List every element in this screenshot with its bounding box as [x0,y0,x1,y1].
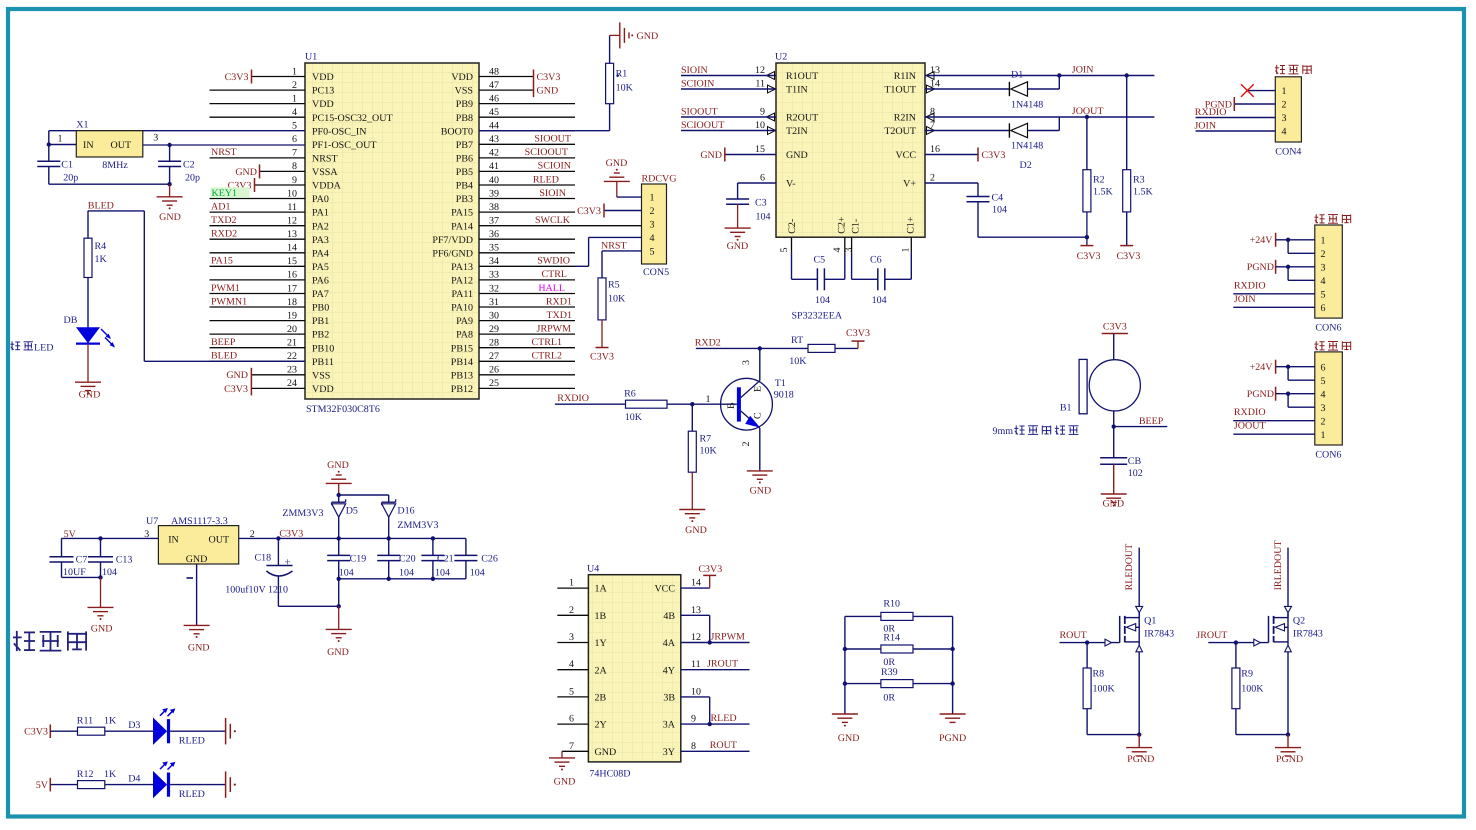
svg-text:GND: GND [235,167,257,178]
svg-text:1: 1 [569,578,574,589]
svg-text:43: 43 [489,134,499,145]
svg-text:2: 2 [1321,249,1326,260]
svg-text:PB15: PB15 [451,343,473,354]
svg-text:45: 45 [489,107,499,118]
svg-text:VDD: VDD [312,384,334,395]
svg-text:JROUT: JROUT [707,659,738,670]
svg-text:PA2: PA2 [312,221,329,232]
svg-text:19: 19 [287,310,297,321]
svg-text:GND: GND [727,241,749,252]
svg-text:4: 4 [650,233,655,244]
svg-text:1: 1 [706,394,711,405]
svg-text:GND: GND [188,642,210,653]
svg-text:4A: 4A [663,638,676,649]
svg-text:C3V3: C3V3 [577,206,601,217]
svg-text:1A: 1A [595,584,608,595]
svg-text:PA11: PA11 [452,289,474,300]
svg-text:35: 35 [489,243,499,254]
svg-text:40: 40 [489,175,499,186]
svg-text:HALL: HALL [538,283,565,294]
svg-text:T1: T1 [775,378,786,389]
svg-text:PWMN1: PWMN1 [211,296,247,307]
svg-text:SCIOOUT: SCIOOUT [525,147,568,158]
svg-text:TXD1: TXD1 [546,310,572,321]
svg-text:BEEP: BEEP [211,337,236,348]
svg-text:1K: 1K [104,769,117,780]
svg-text:104: 104 [339,567,354,578]
svg-text:1: 1 [1321,235,1326,246]
svg-text:PF6/GND: PF6/GND [432,248,473,259]
svg-text:41: 41 [489,161,499,172]
svg-text:PB7: PB7 [456,140,473,151]
svg-text:5: 5 [1321,289,1326,300]
svg-text:C1-: C1- [851,219,862,234]
svg-text:10K: 10K [700,446,718,457]
svg-text:RDCVG: RDCVG [642,174,677,185]
svg-text:PF1-OSC_OUT: PF1-OSC_OUT [312,140,376,151]
svg-text:PB13: PB13 [451,370,473,381]
svg-text:C2+: C2+ [837,216,848,234]
svg-text:ROUT: ROUT [710,740,737,751]
svg-text:R11: R11 [77,716,93,727]
svg-text:GND: GND [159,212,181,223]
svg-text:PB5: PB5 [456,167,473,178]
svg-text:4: 4 [1321,389,1326,400]
svg-text:NRST: NRST [312,154,338,165]
svg-text:GND: GND [700,150,722,161]
svg-text:10K: 10K [789,356,807,367]
svg-text:100K: 100K [1093,683,1116,694]
svg-text:C3V3: C3V3 [1103,321,1127,332]
svg-text:4: 4 [832,248,843,253]
svg-text:R5: R5 [608,280,620,291]
svg-text:13: 13 [691,605,701,616]
svg-text:7: 7 [569,741,574,752]
svg-text:C3V3: C3V3 [224,384,248,395]
svg-text:IN: IN [168,534,179,545]
svg-text:39: 39 [489,188,499,199]
svg-text:8MHz: 8MHz [102,160,128,171]
svg-text:D16: D16 [397,505,414,516]
svg-text:1: 1 [1282,86,1287,97]
svg-text:4Y: 4Y [663,665,675,676]
svg-text:2B: 2B [595,693,607,704]
svg-text:13: 13 [930,65,940,76]
svg-text:17: 17 [287,283,297,294]
svg-text:BLED: BLED [88,201,114,212]
svg-text:R2: R2 [1093,175,1105,186]
svg-text:RXD2: RXD2 [211,229,237,240]
svg-text:10K: 10K [625,412,643,423]
svg-text:VCC: VCC [895,150,916,161]
svg-text:R12: R12 [77,769,94,780]
svg-text:CON6: CON6 [1315,450,1341,461]
svg-text:1Y: 1Y [595,638,607,649]
svg-text:PA12: PA12 [451,276,473,287]
svg-text:C4: C4 [992,193,1004,204]
svg-text:1B: 1B [595,611,607,622]
svg-text:CB: CB [1128,456,1142,467]
svg-text:VDDA: VDDA [312,181,342,192]
svg-text:IRLEDOUT: IRLEDOUT [1273,540,1284,590]
svg-text:VDD: VDD [312,72,334,83]
svg-text:8: 8 [292,161,297,172]
svg-text:GND: GND [595,747,617,758]
svg-text:STM32F030C8T6: STM32F030C8T6 [306,404,380,415]
svg-text:4: 4 [1282,127,1287,138]
svg-text:RLEDOUT: RLEDOUT [1124,544,1135,591]
svg-text:44: 44 [489,121,499,132]
svg-text:18: 18 [287,297,297,308]
svg-text:JOIN: JOIN [1072,65,1094,76]
svg-text:30: 30 [489,310,499,321]
svg-text:C7: C7 [76,555,88,566]
svg-text:BOOT0: BOOT0 [441,126,473,137]
svg-text:GND: GND [186,554,208,565]
svg-text:IR7843: IR7843 [1144,629,1174,640]
svg-text:SP3232EEA: SP3232EEA [792,311,843,322]
svg-text:9: 9 [292,175,297,186]
svg-text:GND: GND [79,390,101,401]
svg-text:C3V3: C3V3 [279,528,303,539]
svg-text:100K: 100K [1241,683,1264,694]
svg-text:28: 28 [489,338,499,349]
svg-text:RLED: RLED [533,174,559,185]
svg-text:5: 5 [292,121,297,132]
svg-text:104: 104 [102,567,117,578]
svg-text:JRPWM: JRPWM [537,323,572,334]
svg-text:9mm: 9mm [993,426,1014,437]
svg-text:RXDIO: RXDIO [1234,407,1266,418]
svg-text:JROUT: JROUT [1196,630,1227,641]
svg-text:10K: 10K [608,294,626,305]
svg-text:2: 2 [930,173,935,184]
svg-text:PB8: PB8 [456,113,473,124]
svg-text:14: 14 [691,578,701,589]
svg-text:VSS: VSS [455,86,473,97]
svg-text:TXD2: TXD2 [211,215,237,226]
svg-text:R1IN: R1IN [894,71,916,82]
svg-text:JOOUT: JOOUT [1072,106,1104,117]
svg-text:C1+: C1+ [905,216,916,234]
svg-text:3: 3 [153,133,158,144]
svg-text:PB11: PB11 [312,357,334,368]
svg-text:C26: C26 [481,553,498,564]
svg-text:PB0: PB0 [312,303,329,314]
svg-text:PA15: PA15 [211,256,233,267]
svg-text:RXDIO: RXDIO [1195,107,1227,118]
svg-text:C3V3: C3V3 [846,328,870,339]
svg-text:PA13: PA13 [451,262,473,273]
svg-text:Q2: Q2 [1293,616,1305,627]
svg-text:104: 104 [815,295,830,306]
svg-text:ZMM3V3: ZMM3V3 [282,508,323,519]
svg-text:2: 2 [1282,100,1287,111]
svg-text:GND: GND [606,158,628,169]
svg-text:16: 16 [287,270,297,281]
svg-text:1: 1 [901,248,912,253]
svg-text:22: 22 [287,351,297,362]
svg-text:D4: D4 [128,773,140,784]
svg-text:1N4148: 1N4148 [1011,100,1043,111]
svg-text:33: 33 [489,270,499,281]
svg-text:SIOOUT: SIOOUT [681,107,718,118]
svg-text:3: 3 [569,632,574,643]
svg-text:6: 6 [1321,362,1326,373]
svg-text:R14: R14 [883,633,900,644]
svg-text:PA14: PA14 [451,221,473,232]
svg-text:34: 34 [489,256,499,267]
svg-text:U4: U4 [587,564,599,575]
svg-text:PB10: PB10 [312,343,334,354]
svg-text:RXDIO: RXDIO [1234,280,1266,291]
svg-text:9: 9 [760,107,765,118]
svg-text:42: 42 [489,148,499,159]
svg-text:37: 37 [489,216,499,227]
svg-text:3B: 3B [663,693,675,704]
svg-text:RXD2: RXD2 [695,338,721,349]
svg-text:U7: U7 [146,516,158,527]
svg-text:C2: C2 [183,160,195,171]
svg-text:PA0: PA0 [312,194,329,205]
svg-text:1: 1 [1321,430,1326,441]
svg-text:SIOIN: SIOIN [539,188,566,199]
svg-text:PB1: PB1 [312,316,329,327]
svg-text:T1IN: T1IN [786,85,808,96]
svg-text:JOIN: JOIN [1194,120,1216,131]
svg-text:PGND: PGND [1127,754,1154,765]
svg-text:104: 104 [756,212,771,223]
svg-text:11: 11 [287,202,297,213]
svg-text:PB9: PB9 [456,99,473,110]
svg-text:RT: RT [791,335,803,346]
svg-text:46: 46 [489,93,499,104]
svg-text:GND: GND [537,86,559,97]
svg-text:74HC08D: 74HC08D [589,769,630,780]
svg-text:PF7/VDD: PF7/VDD [432,235,473,246]
svg-text:CTRL2: CTRL2 [531,351,562,362]
svg-text:3: 3 [1321,403,1326,414]
svg-text:4: 4 [1321,276,1326,287]
svg-text:CON4: CON4 [1275,147,1301,158]
svg-text:R9: R9 [1241,669,1253,680]
svg-text:ROUT: ROUT [1060,630,1087,641]
svg-text:C3V3: C3V3 [590,352,614,363]
svg-text:SCIOIN: SCIOIN [681,79,714,90]
svg-text:R6: R6 [624,388,636,399]
svg-text:Q1: Q1 [1144,616,1156,627]
svg-text:47: 47 [489,80,499,91]
svg-text:PGND: PGND [1276,754,1303,765]
svg-text:C3V3: C3V3 [698,564,722,575]
svg-text:GND: GND [327,647,349,658]
svg-text:SIOIN: SIOIN [681,65,708,76]
svg-text:5: 5 [779,248,790,253]
svg-text:GND: GND [838,733,860,744]
svg-text:R1OUT: R1OUT [786,71,818,82]
svg-text:CTRL1: CTRL1 [531,337,562,348]
svg-text:38: 38 [489,202,499,213]
svg-text:B1: B1 [1060,403,1072,414]
svg-text:3: 3 [144,529,149,540]
svg-text:1: 1 [292,93,297,104]
svg-text:AMS1117-3.3: AMS1117-3.3 [171,516,228,527]
svg-text:6: 6 [292,134,297,145]
svg-text:VCC: VCC [654,584,675,595]
svg-text:104: 104 [435,567,450,578]
svg-text:IN: IN [83,140,94,151]
svg-text:GND: GND [1102,499,1124,510]
svg-text:PA15: PA15 [451,208,473,219]
svg-text:R8: R8 [1093,669,1105,680]
svg-text:104: 104 [399,567,414,578]
svg-text:PA1: PA1 [312,208,329,219]
svg-text:20p: 20p [185,173,200,184]
svg-text:DB: DB [64,315,78,326]
svg-text:14: 14 [287,243,297,254]
svg-text:2: 2 [569,605,574,616]
svg-text:GND: GND [637,31,659,42]
svg-text:24: 24 [287,378,297,389]
svg-text:36: 36 [489,229,499,240]
svg-text:11: 11 [691,659,701,670]
svg-text:5: 5 [1321,376,1326,387]
svg-text:1.5K: 1.5K [1093,187,1114,198]
svg-text:+24V: +24V [1250,362,1274,373]
svg-text:R2OUT: R2OUT [786,113,818,124]
svg-text:V-: V- [786,179,796,190]
svg-text:10UF: 10UF [63,567,86,578]
svg-text:12: 12 [691,632,701,643]
svg-text:21: 21 [287,338,297,349]
svg-text:6: 6 [1321,303,1326,314]
svg-text:JOIN: JOIN [1234,294,1256,305]
svg-text:RLED: RLED [179,735,205,746]
svg-text:11: 11 [755,79,765,90]
svg-text:R3: R3 [1133,175,1145,186]
svg-text:RXD1: RXD1 [546,296,572,307]
svg-text:T2OUT: T2OUT [884,126,916,137]
svg-text:104: 104 [992,204,1007,215]
svg-text:OUT: OUT [209,534,230,545]
svg-text:C21: C21 [437,553,454,564]
svg-text:C3: C3 [755,198,767,209]
svg-text:PC15-OSC32_OUT: PC15-OSC32_OUT [312,113,393,124]
svg-text:C20: C20 [399,553,416,564]
svg-text:6: 6 [569,714,574,725]
svg-text:2: 2 [1321,416,1326,427]
svg-text:VDD: VDD [312,99,334,110]
svg-text:104: 104 [872,295,887,306]
svg-text:10: 10 [691,686,701,697]
svg-text:R10: R10 [883,599,900,610]
svg-text:10: 10 [287,188,297,199]
svg-text:PB12: PB12 [451,384,473,395]
svg-text:1N4148: 1N4148 [1011,141,1043,152]
svg-text:12: 12 [287,216,297,227]
svg-text:GND: GND [750,486,772,497]
svg-text:U2: U2 [775,52,787,63]
svg-text:R4: R4 [95,241,107,252]
svg-text:U1: U1 [305,52,317,63]
svg-text:6: 6 [760,173,765,184]
svg-text:GND: GND [91,623,113,634]
svg-text:X1: X1 [76,119,88,130]
svg-text:PGND: PGND [1247,389,1274,400]
svg-text:JOOUT: JOOUT [1234,421,1266,432]
svg-text:PA8: PA8 [456,330,473,341]
svg-text:48: 48 [489,66,499,77]
svg-text:SWDIO: SWDIO [537,256,570,267]
svg-text:1: 1 [292,66,297,77]
svg-text:C13: C13 [116,555,133,566]
svg-text:CON6: CON6 [1315,323,1341,334]
svg-text:5: 5 [650,247,655,258]
svg-text:T2IN: T2IN [786,126,808,137]
svg-text:32: 32 [489,283,499,294]
svg-text:GND: GND [786,150,808,161]
svg-text:12: 12 [755,65,765,76]
svg-text:GND: GND [226,370,248,381]
svg-text:PA5: PA5 [312,262,329,273]
svg-text:PC13: PC13 [312,86,334,97]
svg-text:SIOOUT: SIOOUT [534,134,571,145]
svg-text:T1OUT: T1OUT [884,85,916,96]
svg-text:3A: 3A [663,720,676,731]
svg-text:E: E [753,386,764,392]
svg-text:7: 7 [292,148,297,159]
svg-text:GND: GND [685,525,707,536]
svg-text:C3V3: C3V3 [225,72,249,83]
svg-text:5V: 5V [36,780,49,791]
svg-text:3: 3 [844,248,855,253]
svg-text:0R: 0R [883,693,895,704]
svg-text:VSS: VSS [312,370,330,381]
svg-text:KEY1: KEY1 [212,188,238,199]
svg-text:8: 8 [691,741,696,752]
svg-text:D5: D5 [346,505,358,516]
svg-text:104: 104 [470,567,485,578]
svg-text:RLED: RLED [179,789,205,800]
svg-text:3: 3 [1282,113,1287,124]
svg-text:C3V3: C3V3 [1116,251,1140,262]
svg-text:C3V3: C3V3 [24,727,48,738]
svg-text:GND: GND [554,777,576,788]
svg-text:PWM1: PWM1 [211,283,240,294]
svg-text:AD1: AD1 [211,201,230,212]
svg-text:C6: C6 [870,254,882,265]
svg-text:+24V: +24V [1250,235,1274,246]
svg-text:OUT: OUT [111,140,132,151]
svg-text:D1: D1 [1011,70,1023,81]
svg-text:C3V3: C3V3 [1077,251,1101,262]
svg-text:PA9: PA9 [456,316,473,327]
svg-text:C1: C1 [61,160,73,171]
svg-text:R1: R1 [616,69,628,80]
svg-text:GND: GND [327,460,349,471]
svg-text:PB6: PB6 [456,154,473,165]
svg-text:LED: LED [34,343,53,354]
svg-text:V+: V+ [903,179,916,190]
svg-text:C2-: C2- [787,219,798,234]
svg-text:C3V3: C3V3 [982,150,1006,161]
svg-text:29: 29 [489,324,499,335]
svg-text:R2IN: R2IN [894,113,916,124]
svg-text:VDD: VDD [451,72,473,83]
svg-text:PB3: PB3 [456,194,473,205]
svg-text:PGND: PGND [1247,262,1274,273]
svg-text:2: 2 [650,206,655,217]
